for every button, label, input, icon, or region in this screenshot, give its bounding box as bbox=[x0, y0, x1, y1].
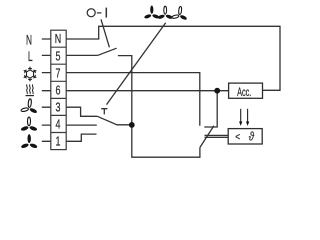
svg-text:3: 3 bbox=[56, 101, 61, 115]
svg-text:N: N bbox=[55, 33, 61, 47]
svg-text:7: 7 bbox=[56, 67, 61, 81]
svg-text:N: N bbox=[26, 33, 32, 48]
svg-text:4: 4 bbox=[56, 118, 61, 132]
svg-text:L: L bbox=[28, 50, 33, 64]
svg-text:<: < bbox=[235, 131, 240, 143]
svg-text:1: 1 bbox=[56, 135, 61, 149]
svg-text:6: 6 bbox=[56, 84, 61, 98]
svg-text:Acc.: Acc. bbox=[237, 87, 251, 100]
svg-text:ϑ: ϑ bbox=[249, 131, 255, 144]
svg-text:5: 5 bbox=[56, 50, 61, 64]
